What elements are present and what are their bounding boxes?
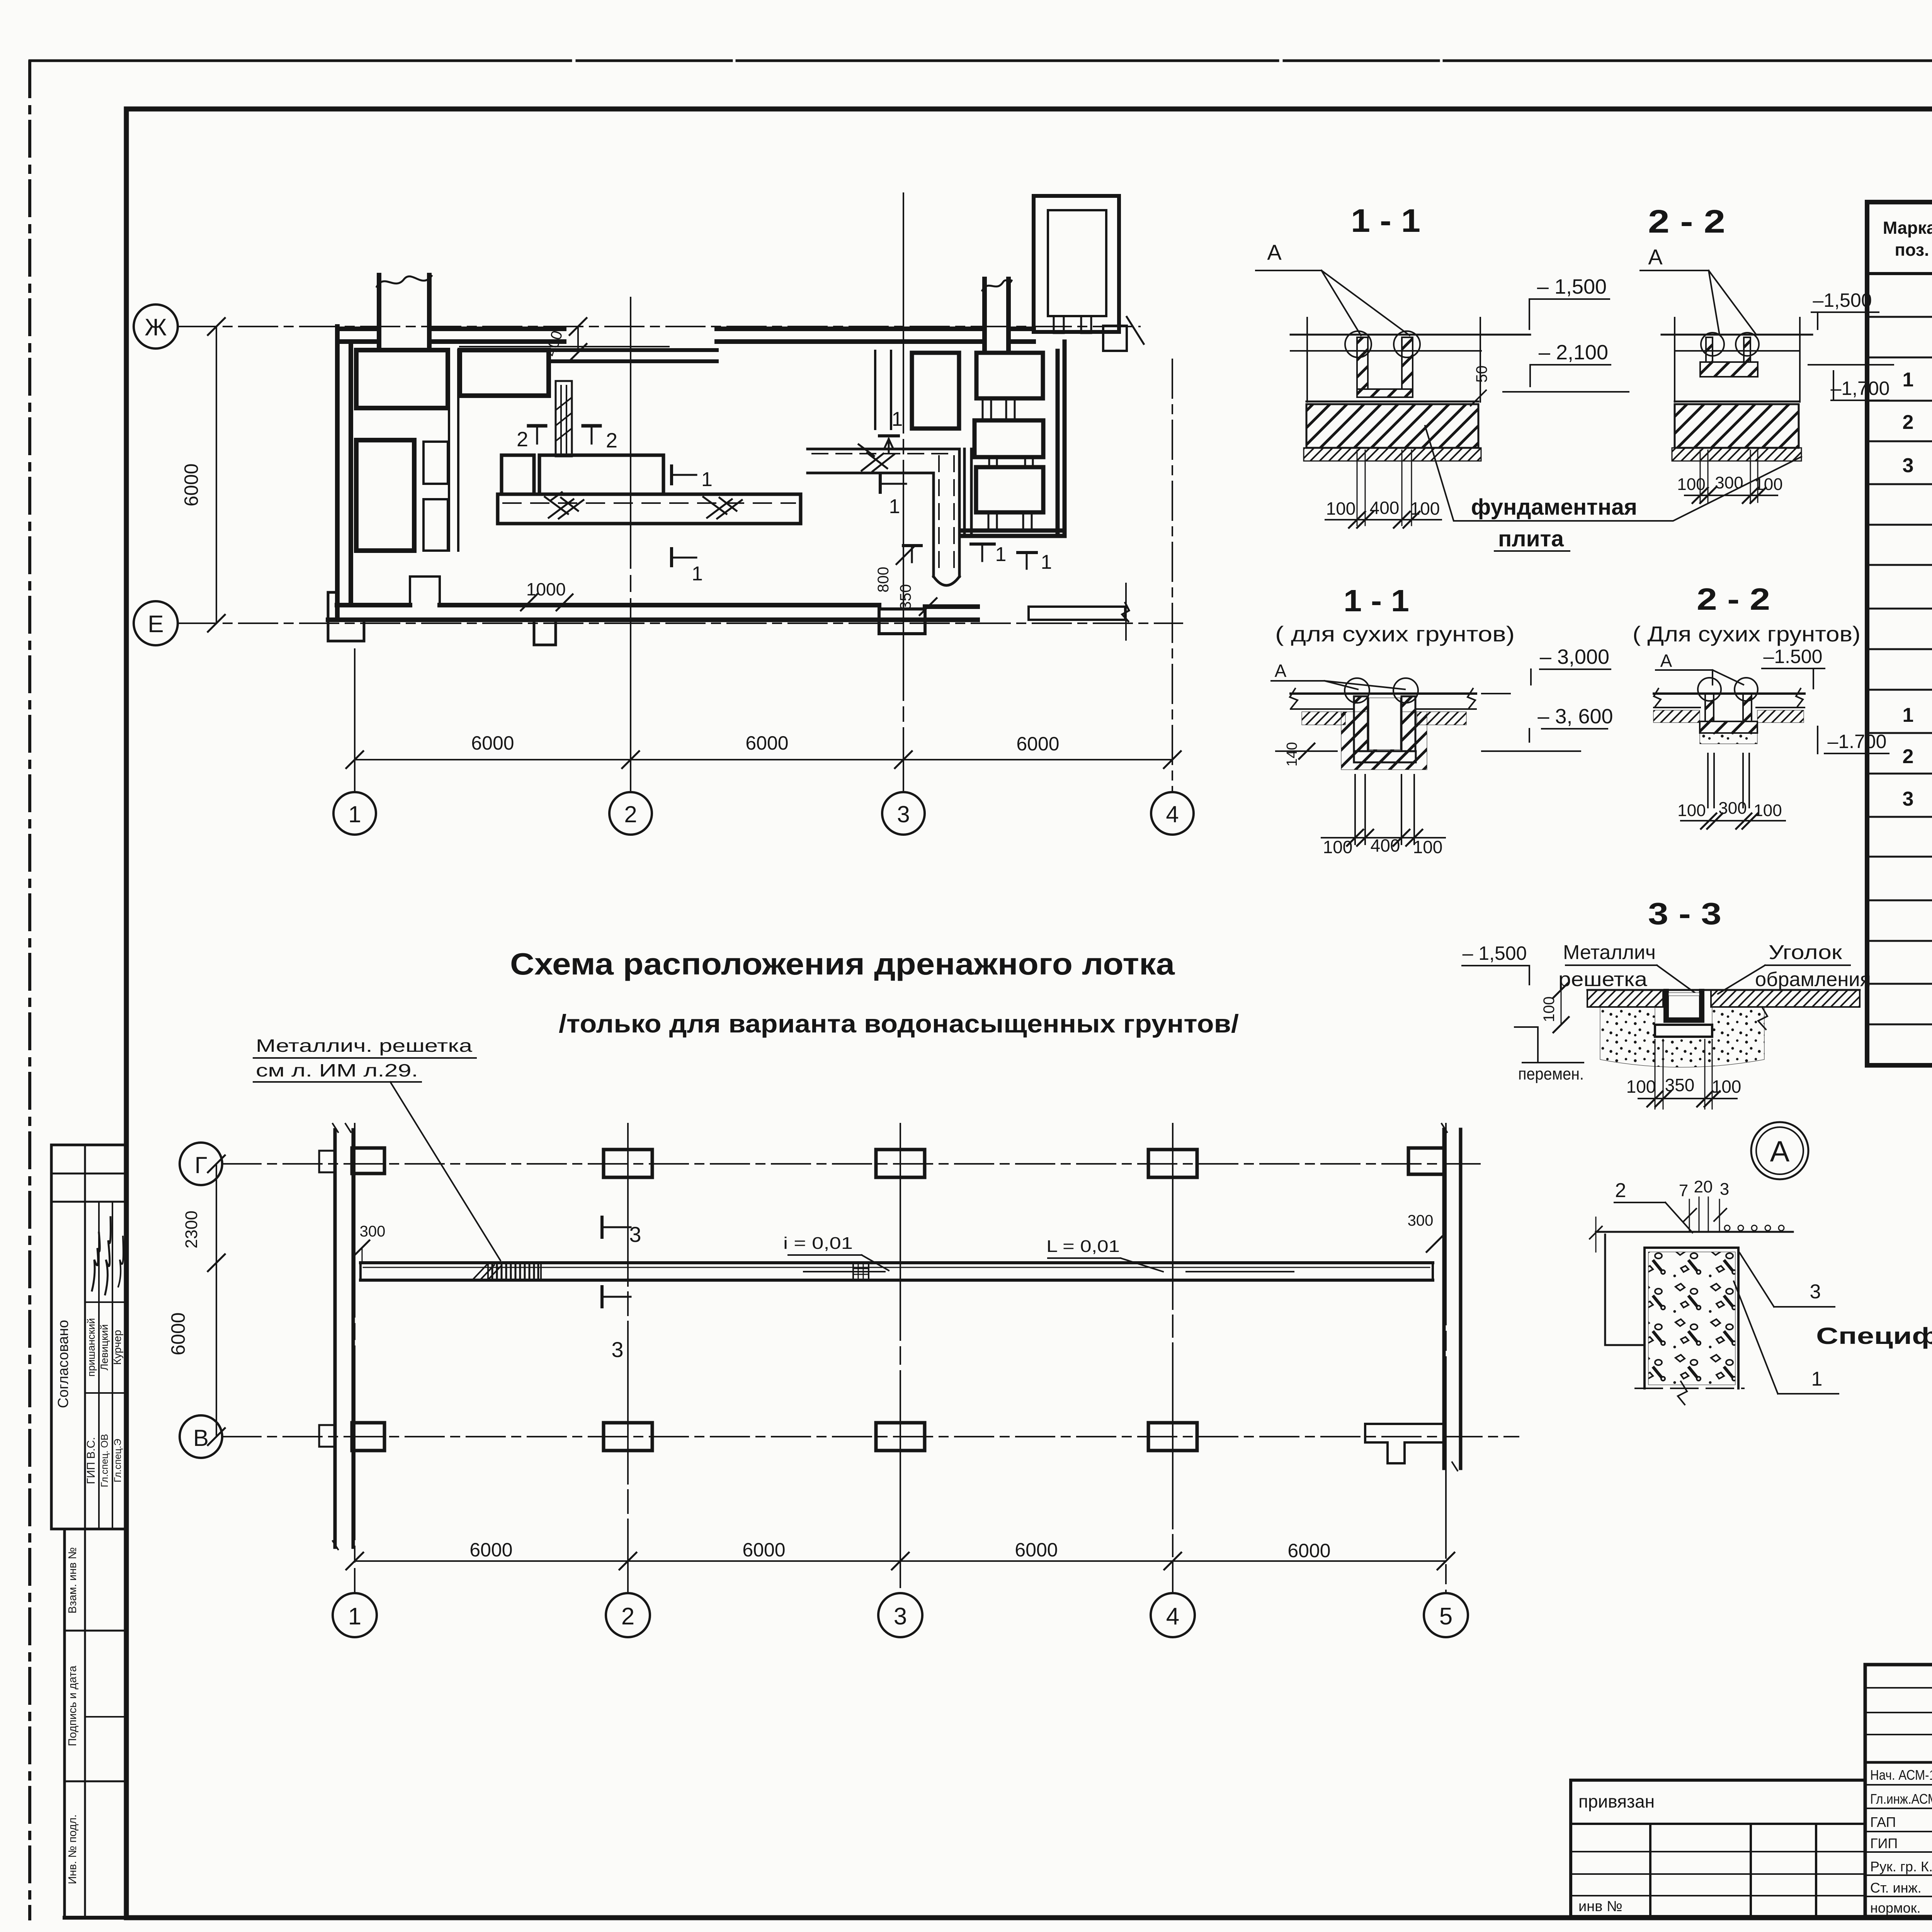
svg-text:( Для сухих грунтов): ( Для сухих грунтов) <box>1633 622 1861 646</box>
svg-text:Ж: Ж <box>145 314 167 341</box>
svg-text:А: А <box>1648 245 1663 269</box>
svg-text:100: 100 <box>1712 1077 1742 1097</box>
svg-text:1000: 1000 <box>526 579 566 599</box>
svg-text:5: 5 <box>1439 1603 1452 1630</box>
svg-text:Курчер: Курчер <box>111 1330 123 1365</box>
svg-text:i = 0,01: i = 0,01 <box>783 1234 853 1253</box>
svg-text:поз.: поз. <box>1895 240 1929 260</box>
svg-text:1: 1 <box>892 408 903 430</box>
svg-text:Согласовано: Согласовано <box>55 1320 71 1408</box>
svg-text:1: 1 <box>348 1603 361 1630</box>
svg-text:300: 300 <box>360 1223 386 1240</box>
svg-text:20: 20 <box>1694 1177 1713 1196</box>
svg-text:1: 1 <box>995 543 1007 566</box>
svg-text:2: 2 <box>621 1603 634 1630</box>
svg-text:2: 2 <box>606 429 617 452</box>
svg-text:100: 100 <box>1326 498 1356 519</box>
svg-text:обрамления: обрамления <box>1755 968 1871 991</box>
svg-text:3: 3 <box>1720 1180 1729 1199</box>
svg-text:100: 100 <box>1626 1077 1656 1097</box>
svg-text:100: 100 <box>1753 801 1782 820</box>
svg-text:– 3, 600: – 3, 600 <box>1537 705 1613 728</box>
svg-text:1: 1 <box>348 801 361 827</box>
svg-text:плита: плита <box>1498 526 1564 551</box>
svg-text:3: 3 <box>1903 788 1914 810</box>
svg-text:ГАП: ГАП <box>1870 1814 1896 1830</box>
svg-text:400: 400 <box>1371 835 1400 855</box>
svg-text:–1.500: –1.500 <box>1764 646 1823 667</box>
svg-text:1 - 1: 1 - 1 <box>1344 583 1409 618</box>
svg-text:1: 1 <box>1811 1368 1823 1390</box>
svg-text:400: 400 <box>542 328 566 358</box>
svg-text:6000: 6000 <box>469 1539 512 1561</box>
svg-text:140: 140 <box>1284 742 1300 766</box>
svg-text:А: А <box>1275 661 1287 681</box>
svg-text:Ст. инж.: Ст. инж. <box>1870 1880 1922 1896</box>
svg-text:3: 3 <box>894 1603 907 1630</box>
svg-text:2: 2 <box>1903 745 1914 768</box>
svg-text:6000: 6000 <box>180 463 202 506</box>
svg-text:А: А <box>1660 651 1672 671</box>
svg-text:Металлич: Металлич <box>1563 941 1656 964</box>
svg-text:В: В <box>193 1425 209 1451</box>
svg-text:2300: 2300 <box>182 1211 201 1248</box>
svg-text:– 1,500: – 1,500 <box>1463 942 1527 964</box>
svg-text:350: 350 <box>897 584 914 610</box>
svg-text:1: 1 <box>1903 704 1914 726</box>
svg-text:/только для варианта водонас: /только для варианта водонасыщенных грун… <box>559 1009 1239 1038</box>
svg-text:3: 3 <box>629 1222 641 1247</box>
svg-text:Рук. гр. К.: Рук. гр. К. <box>1870 1859 1932 1874</box>
svg-text:Г: Г <box>195 1152 207 1178</box>
svg-text:решетка: решетка <box>1558 968 1647 991</box>
svg-text:1 - 1: 1 - 1 <box>1351 202 1420 239</box>
svg-text:2 - 2: 2 - 2 <box>1697 582 1770 616</box>
svg-text:300: 300 <box>1718 799 1747 818</box>
svg-text:2: 2 <box>1903 411 1914 434</box>
svg-text:300: 300 <box>1408 1212 1434 1229</box>
svg-text:Е: Е <box>148 611 163 638</box>
svg-text:6000: 6000 <box>1287 1540 1330 1561</box>
svg-text:перемен.: перемен. <box>1518 1065 1584 1083</box>
svg-text:2 - 2: 2 - 2 <box>1648 203 1725 240</box>
svg-text:400: 400 <box>1370 498 1400 518</box>
svg-text:Нач. АСМ-1: Нач. АСМ-1 <box>1870 1767 1932 1783</box>
svg-text:100: 100 <box>1323 837 1353 857</box>
svg-text:350: 350 <box>1665 1075 1695 1095</box>
svg-text:нормок.: нормок. <box>1870 1900 1920 1916</box>
svg-text:инв №: инв № <box>1578 1898 1622 1915</box>
svg-text:Взам. инв №: Взам. инв № <box>66 1547 79 1614</box>
svg-text:привязан: привязан <box>1578 1791 1655 1811</box>
svg-text:1: 1 <box>692 563 703 585</box>
svg-text:100: 100 <box>1413 837 1443 857</box>
svg-text:4: 4 <box>1166 801 1179 827</box>
svg-text:Металлич. решетка: Металлич. решетка <box>256 1036 473 1056</box>
svg-text:– 2,100: – 2,100 <box>1539 341 1608 364</box>
svg-text:Гл.инж.АСМ: Гл.инж.АСМ <box>1870 1791 1932 1807</box>
svg-text:пришанский: пришанский <box>85 1318 97 1377</box>
svg-text:800: 800 <box>875 567 892 593</box>
svg-text:2: 2 <box>517 428 528 451</box>
svg-text:1: 1 <box>1041 551 1052 573</box>
svg-text:Подпись и дата: Подпись и дата <box>66 1665 79 1746</box>
svg-text:– 3,000: – 3,000 <box>1540 645 1609 668</box>
svg-text:3: 3 <box>1810 1281 1821 1303</box>
svg-text:Гл.спец.Э: Гл.спец.Э <box>112 1439 123 1483</box>
svg-text:6000: 6000 <box>1016 733 1059 755</box>
svg-text:–1,500: –1,500 <box>1813 289 1872 311</box>
svg-text:50: 50 <box>1473 366 1490 383</box>
svg-text:А: А <box>1770 1135 1790 1168</box>
svg-text:см л. ИМ л.29.: см л. ИМ л.29. <box>256 1060 418 1080</box>
svg-text:ГИП: ГИП <box>1870 1835 1898 1851</box>
svg-text:6000: 6000 <box>471 732 514 754</box>
svg-text:ГИП В.С.: ГИП В.С. <box>85 1437 97 1484</box>
svg-text:2: 2 <box>624 801 637 827</box>
svg-text:Левицкий: Левицкий <box>99 1324 110 1371</box>
svg-text:6000: 6000 <box>745 732 788 754</box>
svg-text:Гл.спец. ОВ: Гл.спец. ОВ <box>99 1434 110 1487</box>
svg-text:6000: 6000 <box>1015 1539 1058 1561</box>
svg-text:100: 100 <box>1677 475 1705 494</box>
svg-text:Инв. № подл.: Инв. № подл. <box>66 1815 79 1884</box>
svg-text:3 - 3: 3 - 3 <box>1648 896 1721 931</box>
svg-text:–1.700: –1.700 <box>1828 731 1887 752</box>
svg-text:А: А <box>1267 240 1282 264</box>
svg-text:7: 7 <box>1679 1181 1688 1200</box>
svg-text:4: 4 <box>1166 1603 1179 1630</box>
svg-text:1: 1 <box>701 468 713 491</box>
svg-text:3: 3 <box>1903 454 1914 477</box>
svg-text:6000: 6000 <box>742 1539 785 1561</box>
svg-text:( для сухих грунтов): ( для сухих грунтов) <box>1275 622 1515 646</box>
svg-text:– 1,500: – 1,500 <box>1537 275 1607 298</box>
svg-text:6000: 6000 <box>167 1312 189 1355</box>
svg-text:100: 100 <box>1541 997 1558 1022</box>
svg-text:Марка,: Марка, <box>1883 218 1932 238</box>
svg-text:2: 2 <box>1615 1179 1626 1202</box>
svg-text:Схема расположения дренажног: Схема расположения дренажного лотка <box>510 947 1175 981</box>
svg-text:300: 300 <box>1715 473 1743 492</box>
svg-text:100: 100 <box>1677 801 1706 820</box>
svg-text:100: 100 <box>1754 475 1782 494</box>
svg-text:1: 1 <box>889 495 900 518</box>
svg-text:фундаментная: фундаментная <box>1471 495 1637 520</box>
svg-text:1: 1 <box>1903 369 1914 391</box>
svg-text:3: 3 <box>897 801 910 827</box>
svg-text:–1,700: –1,700 <box>1831 378 1890 399</box>
svg-text:100: 100 <box>1410 498 1440 519</box>
svg-text:Уголок: Уголок <box>1769 941 1842 964</box>
svg-text:L = 0,01: L = 0,01 <box>1046 1237 1120 1256</box>
svg-text:3: 3 <box>611 1337 623 1362</box>
svg-text:Спецификация металла для се: Спецификация металла для сеч. 3-3 дана н… <box>1816 1323 1932 1349</box>
